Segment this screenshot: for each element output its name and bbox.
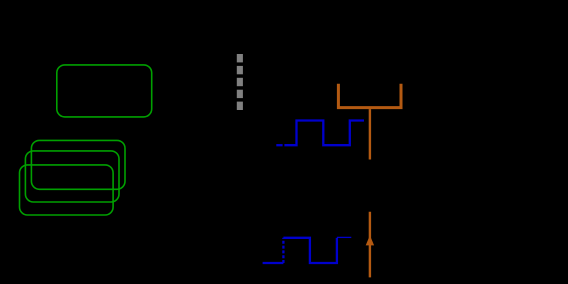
- clock waveform 2 dashed rising edge: [282, 238, 284, 263]
- stacked process box C (bottom of overlap stack): [20, 165, 114, 215]
- clock waveform 1 (upper blue square wave): [284, 121, 364, 146]
- gray dashed vertical separator: [237, 54, 243, 110]
- clock waveform 2 low segment (lower blue square wave): [263, 262, 284, 264]
- clock waveform 2 main trace: [283, 238, 337, 263]
- clock waveform 1 leading dash: [276, 144, 282, 146]
- orange arrowhead (pointing up): [366, 235, 374, 245]
- process box P1 (top-left green rounded rectangle): [57, 65, 152, 117]
- stacked process box A (top of overlap stack): [31, 140, 125, 189]
- stacked process box B (middle of overlap stack): [25, 151, 119, 202]
- clock waveform 2 thin trailing high segment: [337, 236, 351, 238]
- orange stem upper segment: [369, 109, 371, 159]
- orange interval bracket: [338, 84, 401, 108]
- orange stem lower segment: [369, 212, 371, 278]
